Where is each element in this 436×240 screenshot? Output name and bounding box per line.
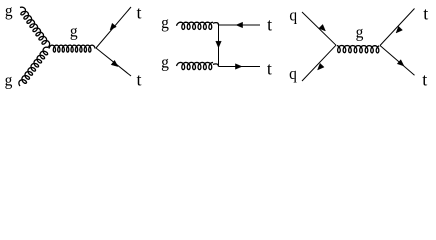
fermion line bottom-right t (diagram 1): [96, 48, 131, 76]
svg-text:t: t: [422, 70, 427, 90]
gluon propagator (diagram 3): [337, 46, 379, 53]
fermion line top-right t (diagram 3): [380, 9, 415, 46]
fermion line top-right t (diagram 2): [219, 24, 261, 26]
gluon incoming bottom-left (diagram 1): [19, 47, 49, 86]
fermion line incoming q top-left (diagram 3): [302, 12, 336, 45]
fermion line bottom-right t (diagram 3): [380, 46, 415, 76]
svg-text:g: g: [5, 3, 13, 20]
svg-text:g: g: [161, 15, 169, 32]
gluon propagator horizontal (diagram 1): [49, 45, 95, 52]
svg-text:q: q: [289, 7, 297, 24]
svg-text:g: g: [161, 54, 169, 71]
arrowhead on top-right t line, pointing to vertex (diagram 1): [110, 23, 116, 30]
arrowhead on top t line, pointing left (diagram 2): [236, 22, 243, 28]
svg-text:g: g: [356, 24, 364, 41]
svg-text:t: t: [267, 15, 272, 35]
gluon incoming bottom (diagram 2): [177, 62, 214, 69]
arrowhead on exchanged quark, pointing down (diagram 2): [216, 41, 222, 48]
Feynman diagrams for top-quark pair production: [0, 0, 436, 92]
arrowhead on incoming qbar, pointing outward (diagram 3): [318, 63, 325, 70]
corner arc joining bottom gluon to exchanged quark (diagram 2): [213, 64, 219, 67]
svg-text:t: t: [136, 3, 141, 23]
arrowhead on bottom t line, pointing right (diagram 2): [235, 64, 242, 70]
gluon incoming top-left (diagram 1): [20, 7, 50, 47]
exchanged top-quark vertical line (diagram 2): [218, 25, 220, 67]
svg-text:q: q: [289, 66, 297, 83]
svg-text:t: t: [423, 3, 428, 23]
arrowhead on top-right t, pointing to vertex (diagram 3): [396, 26, 403, 33]
svg-text:t: t: [136, 69, 141, 89]
fermion line incoming qbar bottom-left (diagram 3): [302, 45, 336, 81]
svg-text:t: t: [267, 59, 272, 79]
corner arc joining top gluon to exchanged quark (diagram 2): [213, 23, 219, 25]
svg-text:g: g: [70, 23, 78, 40]
arrowhead on bottom-right t line, pointing outward (diagram 1): [111, 60, 118, 66]
svg-text:g: g: [5, 72, 13, 89]
gluon incoming top (diagram 2): [177, 22, 214, 29]
arrowhead on incoming q, pointing to vertex (diagram 3): [319, 24, 326, 31]
fermion line bottom-right t (diagram 2): [219, 66, 261, 68]
fermion line top-right t (diagram 1): [96, 7, 131, 48]
arrowhead on bottom-right t, pointing outward (diagram 3): [397, 60, 404, 66]
